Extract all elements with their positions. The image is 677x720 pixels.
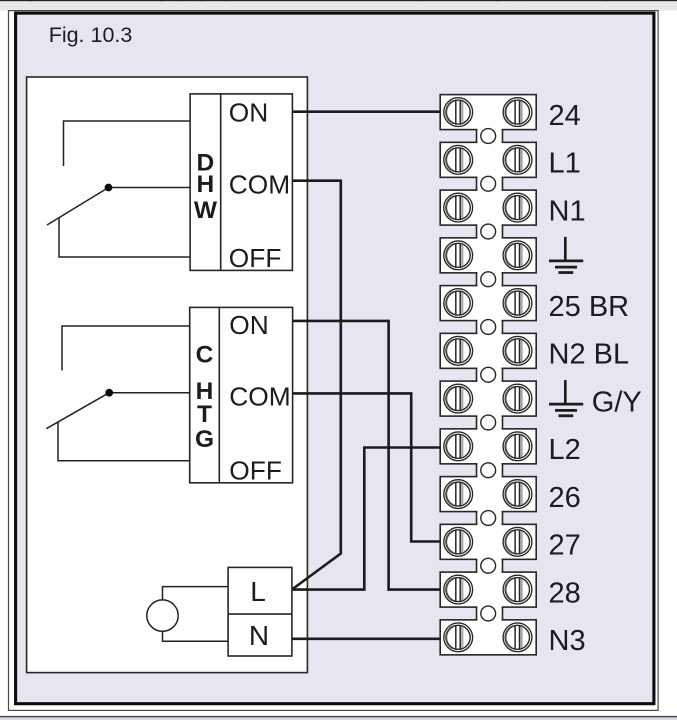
svg-text:24: 24 xyxy=(549,100,581,132)
svg-text:W: W xyxy=(194,197,218,224)
svg-text:Fig. 10.3: Fig. 10.3 xyxy=(49,23,133,47)
svg-text:G: G xyxy=(195,426,214,453)
svg-text:28: 28 xyxy=(549,577,581,609)
svg-text:ON: ON xyxy=(229,310,268,340)
svg-text:26: 26 xyxy=(549,482,581,514)
svg-text:N: N xyxy=(249,620,269,651)
svg-text:N1: N1 xyxy=(549,195,586,227)
svg-text:N2 BL: N2 BL xyxy=(549,339,630,371)
svg-text:T: T xyxy=(197,401,212,428)
svg-text:L1: L1 xyxy=(549,148,581,180)
svg-text:COM: COM xyxy=(229,170,290,200)
svg-text:H: H xyxy=(197,171,215,198)
svg-text:25 BR: 25 BR xyxy=(549,291,630,323)
svg-text:OFF: OFF xyxy=(229,243,282,273)
svg-text:L2: L2 xyxy=(549,434,581,466)
svg-text:L: L xyxy=(250,576,266,607)
svg-text:N3: N3 xyxy=(549,625,586,657)
svg-text:OFF: OFF xyxy=(229,455,282,485)
svg-text:ON: ON xyxy=(229,97,268,127)
svg-text:C: C xyxy=(196,342,214,369)
svg-text:COM: COM xyxy=(229,382,290,412)
svg-text:G/Y: G/Y xyxy=(592,386,642,418)
svg-text:27: 27 xyxy=(549,530,581,562)
